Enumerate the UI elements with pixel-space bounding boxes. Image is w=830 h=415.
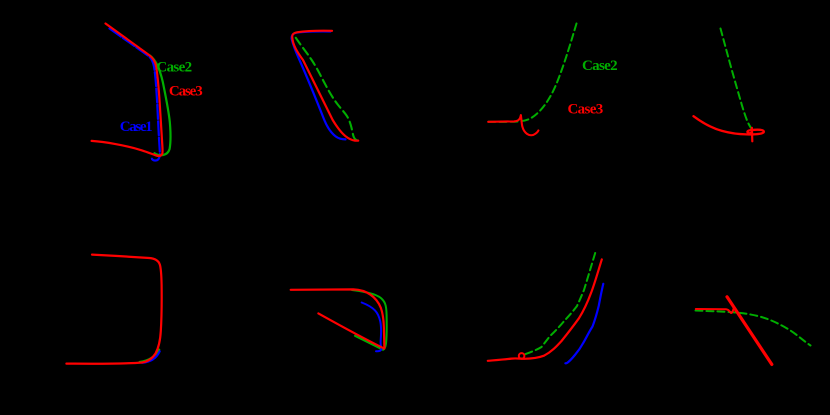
svg-text:Case3: Case3	[169, 84, 203, 100]
svg-text:Case2: Case2	[582, 58, 618, 74]
svg-text:Case2: Case2	[156, 59, 192, 75]
svg-text:Case1: Case1	[120, 119, 153, 135]
svg-text:Case3: Case3	[568, 101, 604, 117]
